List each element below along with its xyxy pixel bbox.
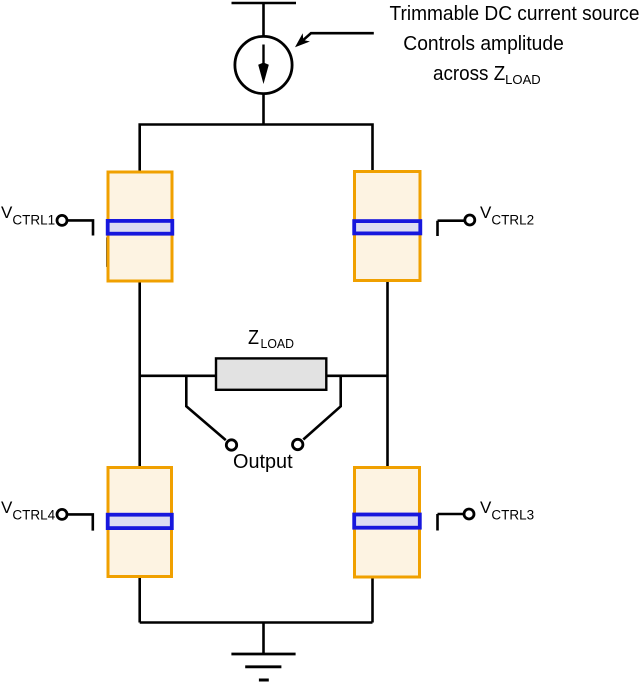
svg-text:Output: Output (233, 451, 293, 473)
svg-text:Trimmable DC current source: Trimmable DC current source (390, 3, 640, 25)
svg-text:Controls amplitude: Controls amplitude (403, 33, 564, 55)
